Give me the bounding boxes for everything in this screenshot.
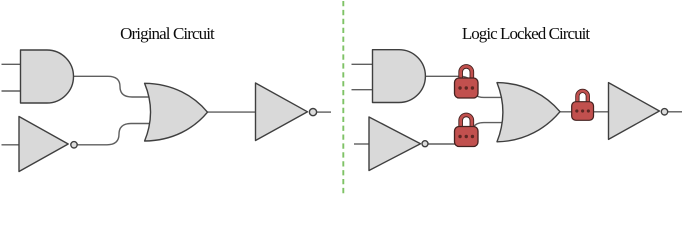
svg-text:Original Circuit: Original Circuit [120,24,215,43]
svg-text:Logic Locked Circuit: Logic Locked Circuit [462,24,591,43]
